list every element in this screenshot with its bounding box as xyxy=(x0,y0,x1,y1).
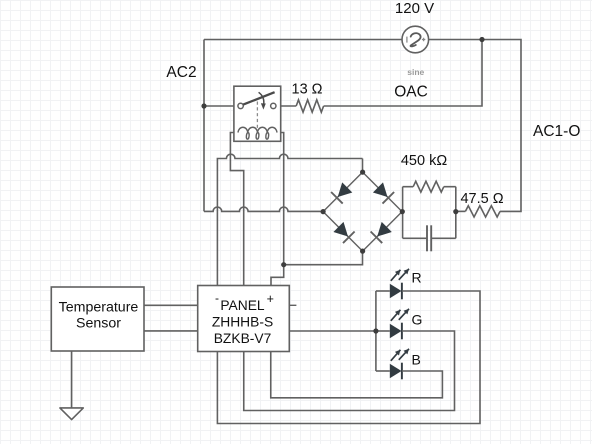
wire junction down with jog into panel pin3 xyxy=(271,265,284,286)
LED G emission arrows xyxy=(391,310,401,321)
relay K1 switch blade xyxy=(243,92,274,104)
junction dot coil-right / bridge return xyxy=(281,262,286,267)
capacitor C1 plates xyxy=(426,225,428,251)
resistor 13 ohm xyxy=(296,100,323,112)
relay K1 coil inductor xyxy=(238,127,277,132)
wire relay coil right pin down to junction with bridge bottom return xyxy=(276,133,284,265)
wire relay switch tap from AC2 bus xyxy=(204,105,238,107)
svg-text:sine: sine xyxy=(407,67,424,77)
diode D2 (top-right, pointing to right vertex) xyxy=(373,182,388,197)
wire panel to LED anode bus (G row) xyxy=(289,330,376,332)
svg-text:13 Ω: 13 Ω xyxy=(292,82,323,98)
wire from panel pin1 up and across to bridge top vertex, with hops over coil pins xyxy=(217,154,362,285)
relay K1 right contact circle xyxy=(271,103,276,108)
svg-text:BZKB-V7: BZKB-V7 xyxy=(214,331,272,346)
svg-text:G: G xyxy=(412,312,423,328)
diode D1 (top-left, pointing to left vertex) xyxy=(338,182,353,197)
AC source plus mark xyxy=(422,38,425,41)
svg-text:B: B xyxy=(412,352,421,368)
diode D4 (bottom-right, pointing to bottom vertex) xyxy=(377,222,392,237)
LED B emission arrows xyxy=(391,350,401,361)
svg-text:ZHHHB-S: ZHHHB-S xyxy=(212,315,273,330)
wire LED G anode lead xyxy=(376,330,390,332)
resistor 47.5 ohm xyxy=(465,206,500,217)
wire panel right stub pin xyxy=(289,304,296,306)
wire top horizontal from AC source to top-right corner, down to 47.5 ohm xyxy=(429,40,521,212)
relay K1 actuation arrow xyxy=(259,92,264,104)
wire sensor to panel upper xyxy=(144,304,198,306)
svg-text:AC1-O: AC1-O xyxy=(533,123,580,140)
temperature sensor box xyxy=(51,287,144,351)
wire RC block top branch leads xyxy=(403,186,456,188)
wire 47.5 ohm left lead xyxy=(456,210,466,212)
relay K1 left contact circle xyxy=(238,103,243,108)
junction dot RC right / 47.5 ohm xyxy=(453,209,458,214)
resistor 450 kohm xyxy=(413,181,444,192)
wire sensor to panel lower xyxy=(144,330,198,332)
wire OAC net: relay right terminal through R 13 ohm up to top wire xyxy=(276,40,482,107)
svg-text:47.5 Ω: 47.5 Ω xyxy=(460,191,503,207)
junction dot top wire / OAC riser xyxy=(479,37,484,42)
svg-text:AC2: AC2 xyxy=(166,64,196,81)
junction dot bridge bottom vertex xyxy=(360,249,365,254)
wire RC block bottom branch leads xyxy=(403,237,456,239)
junction dot AC2/relay tap xyxy=(201,103,206,108)
svg-text:120 V: 120 V xyxy=(395,0,434,17)
wire bridge bottom vertex return to coil-right junction xyxy=(284,251,363,265)
LED B diode xyxy=(390,364,402,378)
LED R diode xyxy=(390,284,402,298)
svg-text:OAC: OAC xyxy=(394,84,428,101)
wire AC2 net: top-left corner down to bridge left vertex, with crossover hops xyxy=(204,207,323,211)
wire LED anode bus vertical xyxy=(375,291,377,371)
junction dot bridge right vertex xyxy=(400,209,405,214)
wire top horizontal from AC2 corner to AC source xyxy=(204,39,402,41)
svg-text:R: R xyxy=(412,270,422,286)
panel box ZHHHB-S xyxy=(198,286,290,352)
wire LED R cathode loop to panel pin (bottom-most) xyxy=(217,291,480,424)
junction dot bridge top vertex xyxy=(360,170,365,175)
LED R emission arrows xyxy=(391,270,401,281)
svg-text:450 kΩ: 450 kΩ xyxy=(401,153,447,169)
wire bridge diamond edges xyxy=(323,172,402,251)
junction dot bridge left vertex xyxy=(321,209,326,214)
wire RC block left edge (from bridge right vertex) xyxy=(402,187,404,239)
ground symbol xyxy=(60,408,83,420)
svg-text:+: + xyxy=(267,292,274,306)
AC source sine waveform glyph xyxy=(410,33,420,46)
LED G diode xyxy=(390,324,402,338)
svg-text:Temperature: Temperature xyxy=(59,300,139,316)
wire RC block right edge xyxy=(455,187,457,239)
wire LED G cathode loop to panel pin (middle) xyxy=(244,331,455,411)
diode D3 (bottom-left, pointing to bottom vertex) xyxy=(333,222,348,237)
wire relay coil left pin with jog down to panel pin2 xyxy=(230,133,243,286)
wire LED R anode lead xyxy=(376,290,390,292)
wire LED B cathode loop to panel pin (top) xyxy=(271,352,443,398)
svg-text:-: - xyxy=(215,291,219,305)
AC source minus mark xyxy=(406,37,408,43)
relay K1 switch box xyxy=(234,86,281,141)
AC source V1 circle xyxy=(402,26,429,53)
svg-text:PANEL: PANEL xyxy=(220,298,265,313)
wire LED B anode lead xyxy=(376,370,390,372)
junction dot LED G bus xyxy=(373,328,378,333)
wire ground stem xyxy=(71,351,73,408)
svg-text:Sensor: Sensor xyxy=(76,316,121,332)
relay K1 dashed link to coil xyxy=(256,102,258,129)
